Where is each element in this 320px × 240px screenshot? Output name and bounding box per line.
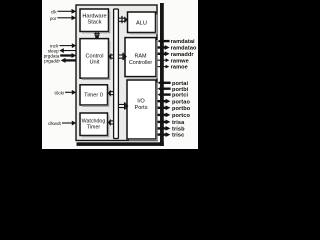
svg-text:t0cki: t0cki xyxy=(55,90,64,95)
signal prgaddr (bus output) xyxy=(44,58,76,64)
signal trisb (bus output) xyxy=(157,126,185,133)
connector bus to I/O Ports xyxy=(118,102,128,109)
block ALU xyxy=(128,12,158,34)
connector Timer 0 to bus (arrow into Timer 0) xyxy=(108,90,114,97)
signal por (input) xyxy=(50,15,76,20)
svg-text:ramdatai: ramdatai xyxy=(171,39,195,45)
signal ramdatai (bus input, right) xyxy=(157,39,195,46)
signal portai (bus input) xyxy=(157,80,188,87)
signal portco (bus output) xyxy=(157,113,190,120)
svg-text:portbo: portbo xyxy=(172,106,191,112)
signal portci (bus input) xyxy=(157,92,188,99)
block Watchdog Timer xyxy=(80,113,109,137)
svg-text:ramwe: ramwe xyxy=(171,58,189,64)
svg-text:Ports: Ports xyxy=(134,105,147,111)
signal ramwe (output) xyxy=(157,58,188,64)
svg-text:Timer 0: Timer 0 xyxy=(84,93,103,99)
svg-text:Controller: Controller xyxy=(129,60,153,66)
outer box drop shadow bottom xyxy=(77,142,164,146)
signal trisa (bus output) xyxy=(157,120,185,127)
signal portao (bus output) xyxy=(157,99,190,106)
svg-text:portco: portco xyxy=(172,113,190,119)
svg-text:ramaddr: ramaddr xyxy=(171,52,195,58)
svg-text:RAM: RAM xyxy=(135,53,147,59)
signal portbi (bus input) xyxy=(157,86,188,93)
connector bus to ALU xyxy=(118,16,127,23)
connector Hardware Stack to Control Unit (bus link) xyxy=(94,32,100,39)
svg-text:Stack: Stack xyxy=(88,20,102,26)
svg-text:clk: clk xyxy=(51,9,57,14)
signal sleep (output) xyxy=(48,48,76,53)
signal portbo (bus output) xyxy=(157,105,190,112)
connector Watchdog Timer to bus (arrow into WDT) xyxy=(108,119,114,126)
signal prgdata (bus input) xyxy=(44,53,77,59)
connector bus to RAM Controller xyxy=(118,53,126,60)
signal ramoe (output) xyxy=(157,65,187,71)
outer box interior tint xyxy=(76,5,157,141)
svg-text:por: por xyxy=(50,16,57,21)
svg-text:trisa: trisa xyxy=(172,120,185,126)
svg-text:trisc: trisc xyxy=(172,133,184,139)
signal ramdatao (bus output) xyxy=(157,45,197,52)
signal clkwdt (input) xyxy=(48,121,76,127)
block RAM Controller xyxy=(125,38,158,79)
svg-text:portci: portci xyxy=(172,93,188,99)
svg-text:trisb: trisb xyxy=(172,127,185,133)
block Hardware Stack xyxy=(80,9,110,33)
svg-text:Timer: Timer xyxy=(87,124,101,130)
svg-text:clkwdt: clkwdt xyxy=(48,121,61,126)
block I/O Ports xyxy=(127,80,158,141)
signal trisc (bus output) xyxy=(157,132,184,139)
signal t0cki (input) xyxy=(55,90,77,96)
svg-text:Unit: Unit xyxy=(90,60,100,66)
signal clk (input, top left) xyxy=(51,9,76,14)
svg-text:ramoe: ramoe xyxy=(171,65,188,71)
svg-text:prgaddr: prgaddr xyxy=(44,58,60,63)
signal ramaddr (bus output) xyxy=(157,51,194,58)
outer box (core boundary) xyxy=(76,5,157,141)
signal mclr (input) xyxy=(50,43,76,48)
svg-text:ALU: ALU xyxy=(136,20,147,26)
block Control Unit xyxy=(80,39,110,80)
svg-text:I/O: I/O xyxy=(137,98,145,104)
outer box drop shadow right xyxy=(160,3,164,146)
page background (scan white strip) xyxy=(42,0,198,149)
svg-text:portao: portao xyxy=(172,99,190,105)
data bus (vertical, center) xyxy=(114,9,119,139)
block Timer 0 xyxy=(80,85,109,107)
svg-text:ramdatao: ramdatao xyxy=(171,46,197,52)
connector Control Unit to bus (arrow into CU) xyxy=(108,53,114,60)
